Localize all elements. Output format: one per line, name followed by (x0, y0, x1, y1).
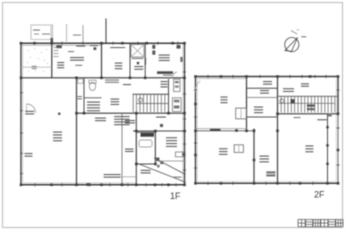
tiny label in carport box (33, 30, 40, 31)
corridor tiny text (78, 96, 83, 99)
2F wall y=88.3 (247, 87, 278, 89)
sink mark a (174, 100, 180, 103)
2F wall x=254 (253, 129, 255, 184)
closet box middle strip (131, 45, 144, 58)
wall x=155.4 (154, 131, 156, 164)
svg-text:1F: 1F (170, 191, 181, 201)
svg-text:2F: 2F (314, 190, 325, 200)
2F hatched box bottom strip (266, 171, 275, 176)
2F text below stairs (317, 119, 327, 120)
stairs text a (307, 105, 315, 107)
entrance wall x=51.8 (51, 44, 53, 78)
2F junction x=236 (235, 129, 238, 132)
living room label (53, 132, 62, 142)
2F balcony line x=327.5 (327, 114, 329, 184)
text right of porch lines (73, 35, 81, 36)
2F small room2 label (260, 90, 269, 94)
2F wall below stairs (278, 113, 339, 115)
room1 top text (110, 47, 125, 48)
hall text block (70, 57, 84, 61)
main horizontal wall y=78 (21, 77, 185, 79)
2F hall text2 (301, 83, 309, 86)
2F room1 label (221, 97, 228, 104)
genkan step marks (54, 47, 59, 49)
closet diagonal a (131, 45, 144, 58)
kitchen counter box upper (174, 79, 180, 91)
kitchen label (161, 81, 168, 88)
tiny label2 in carport box (34, 34, 39, 35)
porch line above entrance right (66, 24, 68, 42)
wall x=168.5 right of stairs (168, 79, 170, 113)
dark vertical line above plan at x=106 (105, 19, 107, 44)
porch line above entrance left (52, 24, 54, 42)
2F strip room label (260, 156, 270, 163)
junction balcony b (326, 144, 328, 146)
closet diagonal b (131, 45, 144, 58)
2F bottom wall inner line (197, 181, 336, 183)
dark door mark on bottom wall (86, 183, 90, 186)
tiny text right of compass (301, 36, 306, 37)
2F left wall inner line (196, 78, 198, 181)
2F wall y=117 (247, 116, 278, 118)
2F dark door segment y=129.7 (210, 129, 221, 131)
2F closet room2 (234, 145, 243, 153)
door cluster mark b (160, 162, 163, 165)
2F top wall (196, 76, 339, 78)
dark dot near room1 wall (94, 47, 97, 50)
1F left wall (20, 43, 22, 185)
stairs center line (136, 103, 168, 105)
light wall y=161 (155, 160, 186, 162)
dark label strip in bathroom (141, 133, 155, 137)
2F top wall inner line (198, 77, 247, 79)
junction balcony a (326, 126, 328, 128)
middle strip label (134, 66, 143, 70)
2F hall text (283, 88, 294, 92)
text below wall y78 (105, 80, 119, 83)
room below bath label (141, 170, 151, 174)
1F bottom wall inner line (23, 182, 136, 184)
horizontal wall y=113.2 (77, 112, 185, 114)
text block y=116 (114, 116, 130, 125)
2F wall y=128.6 upper line (196, 128, 247, 130)
small box near right wall y=152 (175, 152, 185, 157)
2F left wall (195, 77, 197, 184)
text below stairs left (294, 117, 301, 118)
dimension ticks 2F right wall (336, 89, 339, 91)
wall x=145 (144, 43, 146, 78)
dark mark on stairs (291, 99, 295, 103)
dimension ticks 1F right wall (183, 71, 186, 73)
2F room3 label (305, 145, 313, 152)
light vertical line above plan (82, 25, 84, 43)
left room faint inner line (21, 66, 52, 68)
washbasin fixture (78, 79, 83, 83)
wall x=136.3 (135, 113, 137, 185)
junction balcony c (326, 163, 328, 165)
entrance door dark mark (56, 45, 62, 48)
wall junction columns 1F (33, 42, 36, 45)
column above entrance wall (51, 38, 53, 45)
wall y=164 (136, 163, 155, 165)
left room small text (32, 66, 37, 69)
dimension ticks 2F top wall (207, 75, 209, 78)
tatami dots in left room (27, 49, 30, 52)
2F wall y=130.8 (196, 130, 255, 132)
text below washroom (95, 118, 106, 122)
wall x=84 wc/washroom (83, 78, 85, 113)
washroom label (87, 102, 100, 112)
2F right wall upper (337, 77, 339, 116)
wall junction columns 2F (194, 75, 197, 78)
door arc left wall (27, 104, 36, 113)
2F stairs center line (279, 102, 335, 104)
2F spine wall x=277.5 (277, 77, 279, 184)
room2 top-right mark (177, 45, 181, 49)
dimension ticks 2F left wall (194, 89, 197, 91)
diagonal line porch 2 (154, 158, 186, 175)
corridor label (123, 84, 131, 85)
room2 left wall mark a (152, 45, 155, 49)
hall text small (75, 65, 82, 66)
2F staircase treads (281, 97, 335, 113)
genkan text block (57, 62, 64, 68)
dark mark corridor y124 (160, 124, 163, 127)
small mark mid living room (58, 113, 61, 116)
text near bottom wall right (173, 177, 181, 178)
pointer line from text (121, 176, 136, 178)
text y=148 (125, 149, 134, 153)
wall x=130 (129, 43, 131, 78)
1F left wall inner line (22, 45, 24, 183)
text below top wall a (76, 46, 85, 47)
1F bottom wall (20, 184, 185, 186)
toilet fixture (89, 82, 95, 90)
door mark wall x=145 (145, 58, 147, 65)
sink mark b (174, 106, 180, 109)
left room text y=110 (25, 111, 34, 115)
room2 closet dark bar (157, 71, 173, 74)
wall y=97.8 wc bottom (84, 97, 102, 99)
compass needle triangle (285, 37, 298, 51)
door cluster mark a (156, 158, 159, 161)
dimension ticks 1F left wall (20, 92, 23, 94)
2F right wall lower (balcony) (337, 115, 339, 183)
dimension ticks 2F bottom wall (207, 182, 209, 185)
2F top-right small room label (263, 81, 272, 85)
2F right wall inner line (335, 78, 337, 181)
stairwell left wall x=133 (132, 94, 134, 113)
2F stairs top line (278, 95, 339, 97)
balcony top mark (328, 114, 332, 117)
living room right wall x=76.5 (76, 78, 78, 185)
1F top wall (21, 42, 185, 44)
stairs text b (307, 108, 315, 110)
small text x=68 (68, 51, 74, 52)
light wall x=122 (121, 113, 123, 185)
dimension ticks 1F bottom wall (34, 183, 36, 186)
wall x=101.5 genkan/room1 (101, 43, 103, 78)
room2 left wall mark b (152, 51, 155, 55)
compass north dash above (291, 31, 297, 34)
2F bottom wall (195, 182, 339, 184)
1F right wall inner line (182, 45, 184, 183)
text below top wall b (90, 45, 98, 46)
dark mark in small box (182, 153, 184, 156)
carport box above 1F top-left (31, 25, 51, 40)
room1 label (115, 63, 123, 70)
1F staircase (133, 93, 170, 95)
note text bottom-right (pseudo-kanji) (298, 220, 305, 227)
door cluster mark c (157, 165, 160, 168)
kitchen text line (156, 117, 166, 118)
2F closet by wall (236, 108, 247, 119)
2F light wall y=97.5 (247, 97, 278, 99)
text below closet bar (163, 75, 172, 76)
right lower room label (166, 137, 177, 147)
text y=120 (125, 120, 135, 124)
bathroom box (136, 132, 155, 164)
room2 label (159, 55, 170, 62)
room2 right wall window mark (180, 57, 182, 62)
text under closet (132, 58, 144, 59)
2F small room label y=106 (254, 107, 263, 114)
kitchen box mark a (175, 81, 179, 83)
kitchen box mark b (175, 86, 179, 88)
left room text y=153 (25, 153, 33, 157)
2F wall x=246.5 (246, 77, 248, 131)
compass circle (285, 38, 299, 52)
dimension text above left room (42, 34, 50, 35)
2F room2 label (219, 148, 228, 155)
dark dot middle strip (137, 62, 139, 64)
diagonal line porch 1 (138, 164, 186, 183)
dimension ticks 1F top wall (61, 42, 63, 45)
wall y=131 (133, 130, 186, 132)
text x=110 y=98 (111, 99, 120, 106)
kitchen counter box lower (172, 98, 181, 112)
1F top wall inner line (21, 44, 102, 46)
1F right wall (184, 43, 186, 185)
text block bottom y=174 (104, 174, 121, 178)
